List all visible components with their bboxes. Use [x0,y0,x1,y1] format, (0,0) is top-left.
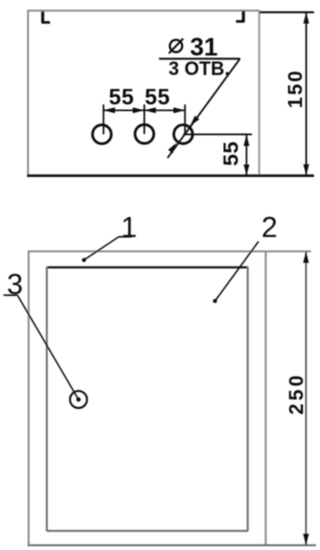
extension line 150 top [260,11,315,13]
arrow 150 down [303,164,309,175]
svg-text:150: 150 [285,69,307,108]
label 3 shelf [4,294,18,296]
extension line hole3 [184,105,186,135]
hole H3 [174,125,193,144]
hole H2 [135,125,154,144]
glass top edge [47,266,248,268]
hole3 horizontal line [183,133,252,135]
extension line hole2 [143,105,145,135]
frame left edge [28,251,30,546]
leader shelf [159,58,240,60]
arrow at 103 pointing left [104,107,116,113]
svg-text:55: 55 [219,141,243,166]
svg-text:55: 55 [145,85,170,110]
label 1 shelf [119,236,132,238]
arrow at 144 pointing right [133,107,145,113]
leader arrow lower [168,143,176,154]
plate bottom edge [27,174,314,177]
glass bottom edge [47,530,248,532]
small hole detail 3 [70,391,87,408]
svg-text:55: 55 [109,85,134,110]
leader arrow upper [190,116,199,126]
arrow 55v down [244,165,250,176]
label 1 leader [84,237,119,260]
arrow 250 up [303,251,309,263]
notch mark left [42,12,50,24]
svg-text:31: 31 [190,34,218,62]
arrow 250 down [303,534,309,546]
diameter symbol [169,39,183,54]
leader diagonal [168,59,241,158]
extension line hole1 [103,105,105,135]
dim line 55 vertical [246,135,248,176]
svg-text:250: 250 [286,372,308,414]
frame bottom edge (extends as extension line) [28,544,317,546]
arrow 150 up [303,12,309,23]
dimension line 55+55 [104,109,186,111]
dim line 250 [305,251,307,545]
frame top edge (extends as extension line) [28,250,312,252]
plate top edge [28,10,260,12]
label 1 dot [82,258,86,262]
notch mark right [236,11,244,22]
plate left edge [27,10,29,176]
svg-text:3 ОТВ.: 3 ОТВ. [169,59,230,80]
dim line 150 [305,12,307,175]
label 3 leader [18,295,79,399]
label 3 dot [76,397,80,401]
svg-text:1: 1 [121,212,137,244]
svg-text:2: 2 [261,212,277,244]
frame right edge [265,251,267,546]
glass right edge [247,267,249,532]
arrow 55v up [244,135,250,146]
plate right edge [258,10,260,176]
glass left edge [46,267,48,532]
label 2 dot [213,299,217,303]
label 2 leader [215,242,259,302]
hole H1 [93,125,112,144]
arrow at 144 pointing left [144,107,156,113]
arrow at 185 pointing right [174,107,186,113]
